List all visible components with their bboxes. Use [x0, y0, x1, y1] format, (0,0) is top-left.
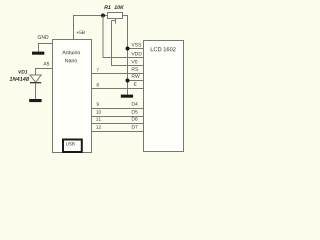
pin number 12: [96, 125, 101, 128]
label GND: [38, 35, 49, 39]
USB connector box: [63, 140, 82, 153]
pin number 9: [97, 102, 99, 105]
label USB: [66, 142, 75, 145]
wire Arduino A5 pin to diode VD1: [36, 69, 53, 76]
wire Arduino pin12 to LCD D7: [92, 131, 144, 133]
wire to LCD VSS pin: [128, 48, 144, 50]
diode VD1 triangle anode: [30, 75, 41, 82]
wire +5V branch to LCD VDD pin: [103, 16, 144, 58]
wire Arduino pin10 to LCD D5: [92, 116, 144, 118]
wire wiper to LCD V0 pin: [112, 21, 144, 66]
node junction at RW: [126, 79, 130, 83]
pin label D6: [132, 117, 138, 121]
pin label V0: [131, 60, 137, 64]
wire R1 right terminal down to ground: [123, 16, 128, 95]
label +5B net: [77, 31, 85, 34]
wire R1 wiper stub: [112, 19, 116, 24]
pin label E: [134, 82, 137, 85]
resistor R1 10K potentiometer body: [108, 13, 123, 19]
pin number 8: [97, 83, 99, 86]
label VD1: [18, 70, 27, 73]
pin number 11: [96, 117, 101, 120]
pin label VDD: [131, 52, 141, 55]
wire Arduino pin9 to LCD D4: [92, 108, 144, 110]
label R1: [104, 5, 110, 9]
pin label D4: [132, 102, 138, 105]
label 1N4148: [9, 77, 29, 81]
wire Arduino pin11 to LCD D6: [92, 123, 144, 125]
ground symbol near LCD: [121, 95, 133, 98]
Arduino Nano box: [53, 40, 92, 153]
node junction at VSS: [126, 47, 130, 51]
ground symbol below VD1: [29, 99, 41, 102]
wire +5V rail from Arduino top pin to R1: [74, 16, 108, 40]
pin label D7: [132, 125, 138, 128]
pin number 10: [96, 110, 101, 113]
wire Arduino pin7 to LCD RS: [92, 73, 144, 75]
diode VD1 cathode bar: [30, 82, 41, 84]
ground symbol at GND pin: [32, 52, 44, 55]
label LCD 1602: [151, 47, 176, 51]
label Nano: [65, 59, 77, 63]
pin label D5: [132, 110, 138, 113]
wire Arduino GND pin to ground: [39, 44, 53, 52]
wire diode cathode to ground: [35, 83, 37, 99]
node junction on +5V rail: [101, 14, 105, 18]
pin label RW: [132, 74, 140, 77]
label Arduino: [62, 50, 80, 54]
label A5: [43, 62, 49, 65]
pin number 7: [97, 68, 99, 71]
pin label VSS: [131, 43, 141, 47]
wire to LCD RW pin: [128, 80, 144, 82]
wire Arduino pin8 to LCD E: [92, 88, 144, 90]
label 10K value: [114, 5, 124, 9]
pin label RS: [132, 67, 138, 71]
LCD 1602 box: [144, 41, 184, 152]
